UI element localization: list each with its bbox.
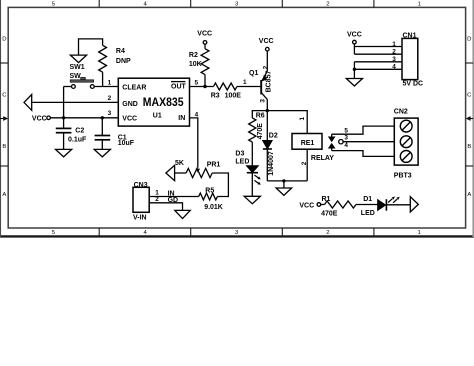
svg-text:PBT3: PBT3 bbox=[394, 172, 412, 179]
svg-text:5K: 5K bbox=[175, 160, 184, 167]
svg-text:3: 3 bbox=[392, 56, 396, 63]
svg-text:B: B bbox=[467, 144, 471, 150]
svg-text:470E: 470E bbox=[257, 123, 264, 140]
svg-text:R4: R4 bbox=[116, 48, 125, 55]
svg-text:B: B bbox=[2, 144, 6, 150]
svg-text:VCC: VCC bbox=[122, 115, 137, 122]
svg-text:2: 2 bbox=[392, 49, 396, 56]
svg-text:R2: R2 bbox=[189, 52, 198, 59]
svg-text:VCC: VCC bbox=[197, 31, 212, 38]
svg-text:CLEAR: CLEAR bbox=[122, 84, 146, 91]
svg-text:BC857: BC857 bbox=[265, 71, 272, 93]
svg-text:RELAY: RELAY bbox=[311, 155, 334, 162]
svg-text:D2: D2 bbox=[269, 132, 278, 139]
svg-text:3: 3 bbox=[259, 99, 266, 103]
svg-text:OUT: OUT bbox=[171, 84, 187, 91]
svg-text:R1: R1 bbox=[322, 196, 331, 203]
svg-text:9.01K: 9.01K bbox=[204, 204, 223, 211]
svg-text:5V DC: 5V DC bbox=[403, 81, 424, 88]
svg-text:2: 2 bbox=[262, 65, 269, 69]
svg-text:5: 5 bbox=[194, 80, 198, 87]
svg-text:LED: LED bbox=[235, 158, 249, 165]
svg-text:GND: GND bbox=[122, 101, 138, 108]
svg-text:4: 4 bbox=[344, 142, 348, 149]
svg-text:2: 2 bbox=[108, 95, 112, 102]
svg-text:1N4007: 1N4007 bbox=[268, 151, 275, 176]
svg-text:C2: C2 bbox=[75, 127, 84, 134]
svg-text:R5: R5 bbox=[205, 188, 214, 195]
svg-text:0.1uF: 0.1uF bbox=[68, 136, 87, 143]
svg-text:GD: GD bbox=[168, 197, 179, 204]
svg-text:D1: D1 bbox=[363, 196, 372, 203]
svg-text:MAX835: MAX835 bbox=[143, 95, 184, 109]
svg-text:IN: IN bbox=[178, 115, 185, 122]
svg-text:1: 1 bbox=[243, 79, 247, 86]
svg-text:10uF: 10uF bbox=[118, 140, 135, 147]
svg-text:4: 4 bbox=[392, 64, 396, 71]
svg-text:2: 2 bbox=[326, 230, 329, 236]
svg-text:2: 2 bbox=[155, 196, 159, 203]
svg-text:A: A bbox=[467, 192, 471, 198]
svg-text:D3: D3 bbox=[235, 151, 244, 158]
svg-text:VCC: VCC bbox=[347, 32, 362, 39]
svg-text:VCC: VCC bbox=[32, 116, 47, 123]
svg-text:3: 3 bbox=[344, 135, 348, 142]
svg-text:RE1: RE1 bbox=[301, 140, 315, 147]
svg-text:2: 2 bbox=[326, 2, 329, 8]
svg-text:CN2: CN2 bbox=[394, 109, 408, 116]
svg-text:2: 2 bbox=[301, 161, 308, 165]
svg-text:A: A bbox=[2, 192, 6, 198]
svg-text:R3: R3 bbox=[211, 93, 220, 100]
svg-text:470E: 470E bbox=[321, 210, 338, 217]
svg-text:LED: LED bbox=[361, 210, 375, 217]
svg-text:SW: SW bbox=[70, 73, 82, 80]
svg-text:3: 3 bbox=[108, 110, 112, 117]
svg-text:1: 1 bbox=[418, 230, 421, 236]
svg-text:V-IN: V-IN bbox=[133, 214, 147, 221]
svg-text:C: C bbox=[2, 92, 7, 98]
svg-text:1: 1 bbox=[392, 41, 396, 48]
svg-text:1: 1 bbox=[299, 116, 306, 120]
svg-text:SW1: SW1 bbox=[70, 64, 85, 71]
svg-text:D: D bbox=[2, 36, 6, 42]
svg-text:PR1: PR1 bbox=[207, 162, 221, 169]
svg-text:R6: R6 bbox=[256, 112, 265, 119]
svg-text:1: 1 bbox=[108, 80, 112, 87]
svg-text:D: D bbox=[467, 36, 471, 42]
svg-text:CN3: CN3 bbox=[134, 182, 148, 189]
svg-text:CN1: CN1 bbox=[403, 33, 417, 40]
svg-text:1: 1 bbox=[418, 2, 421, 8]
svg-text:10K: 10K bbox=[189, 61, 202, 68]
svg-text:VCC: VCC bbox=[259, 38, 274, 45]
svg-text:U1: U1 bbox=[153, 113, 162, 120]
svg-text:C: C bbox=[467, 92, 472, 98]
svg-text:DNP: DNP bbox=[116, 58, 131, 65]
svg-text:VCC: VCC bbox=[299, 203, 314, 210]
svg-text:4: 4 bbox=[195, 112, 199, 119]
svg-text:100E: 100E bbox=[225, 93, 242, 100]
svg-text:Q1: Q1 bbox=[249, 70, 258, 77]
svg-text:5: 5 bbox=[344, 127, 348, 134]
